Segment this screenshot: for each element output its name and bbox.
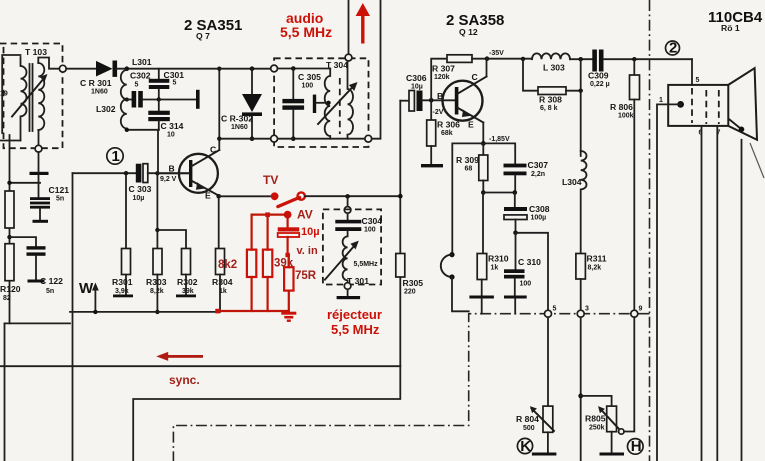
svg-text:100µ: 100µ bbox=[531, 215, 547, 222]
svg-text:C304: C304 bbox=[362, 216, 383, 226]
svg-text:1: 1 bbox=[659, 97, 663, 104]
T304 left winding bbox=[325, 69, 330, 139]
speaker horn arrow bbox=[730, 120, 745, 133]
node rejecteur tap bbox=[345, 194, 350, 199]
transformer T103 right winding bbox=[38, 63, 44, 130]
svg-text:5: 5 bbox=[173, 80, 177, 87]
svg-text:L304: L304 bbox=[562, 177, 582, 187]
speaker terminal 1 bbox=[657, 97, 684, 461]
wire to ground bbox=[347, 289, 349, 296]
svg-text:R 309: R 309 bbox=[456, 155, 479, 165]
ground bar rejecteur bbox=[337, 296, 361, 299]
wire C308 node to 5-line bbox=[516, 233, 549, 311]
ground bar R805 bbox=[600, 453, 625, 456]
svg-text:K: K bbox=[520, 438, 531, 455]
capacitor C306 electrolytic bbox=[400, 73, 455, 111]
W arrow bbox=[79, 280, 99, 314]
red audio arrow bbox=[356, 3, 370, 44]
trimmer plate bbox=[313, 95, 331, 113]
resistor R309 bbox=[456, 143, 488, 192]
svg-text:L 303: L 303 bbox=[543, 63, 565, 73]
node C308 bottom bbox=[513, 231, 518, 236]
svg-text:R301: R301 bbox=[112, 277, 133, 287]
faint diagonal below horn bbox=[750, 143, 764, 178]
capacitor C301 bbox=[149, 69, 184, 100]
label 2 SA358 Q12 bbox=[446, 12, 504, 37]
red node R304 junction bbox=[215, 309, 220, 314]
svg-text:5,5MHz: 5,5MHz bbox=[354, 261, 379, 268]
wire emitter line right of switch bbox=[305, 195, 400, 197]
wire hop to chassis corner bbox=[452, 277, 469, 311]
node C305 top bbox=[291, 66, 296, 71]
resistor R304 bbox=[212, 249, 233, 312]
node R806 top bbox=[632, 57, 636, 61]
node H circled bbox=[628, 438, 644, 455]
svg-text:Rö 1: Rö 1 bbox=[721, 23, 740, 33]
terminal 5 bbox=[545, 306, 557, 318]
svg-text:R120: R120 bbox=[0, 284, 21, 294]
red bottom wire bbox=[218, 310, 289, 312]
svg-text:5: 5 bbox=[135, 82, 139, 89]
terminal circle T304 bottom left bbox=[271, 135, 278, 142]
svg-text:5,5 MHz: 5,5 MHz bbox=[280, 24, 332, 40]
wire C303 to base node bbox=[148, 172, 190, 174]
capacitor C302 bbox=[127, 71, 159, 108]
capacitor C304 bbox=[335, 213, 382, 233]
transistor Q12 bbox=[433, 72, 487, 130]
terminal circle T304 top bbox=[345, 54, 352, 61]
svg-text:C309: C309 bbox=[588, 71, 609, 81]
capacitor bottom plate wire to rail bbox=[10, 182, 41, 184]
ground bar C122 bbox=[28, 280, 45, 283]
connector hop bbox=[441, 252, 455, 280]
node base Q7 bbox=[155, 171, 159, 175]
node K circled bbox=[517, 438, 532, 455]
red AV contact bbox=[284, 211, 292, 219]
red switch right contact bbox=[298, 192, 305, 199]
T304 tuning arrow bbox=[318, 82, 358, 124]
wire feed to speaker bbox=[691, 59, 693, 85]
svg-text:39k: 39k bbox=[182, 288, 194, 295]
svg-text:C R 301: C R 301 bbox=[80, 78, 112, 88]
wire tank bottom bbox=[127, 129, 159, 131]
node 2 circled bbox=[666, 40, 680, 57]
wire rail to L303 bbox=[487, 58, 532, 60]
node collector/rail bbox=[217, 67, 221, 71]
node bus A emitter bbox=[398, 194, 403, 199]
svg-text:10µ: 10µ bbox=[133, 195, 145, 202]
resistor R307 bbox=[431, 55, 487, 101]
svg-text:3: 3 bbox=[585, 306, 589, 313]
svg-text:sync.: sync. bbox=[169, 373, 200, 387]
wire C121 to ground bbox=[39, 209, 41, 220]
red ground symbol bbox=[281, 313, 296, 321]
svg-text:C308: C308 bbox=[529, 204, 550, 214]
svg-text:R 308: R 308 bbox=[539, 95, 562, 105]
red wire AV branch bbox=[252, 215, 288, 250]
wire long vertical from input bbox=[72, 173, 74, 461]
diode CR301 bbox=[80, 61, 117, 96]
terminal 3 bbox=[577, 306, 589, 318]
wire 5-line down bbox=[547, 317, 549, 406]
svg-text:220: 220 bbox=[404, 289, 416, 296]
red node vin bbox=[285, 253, 289, 257]
rejecteur tuning arrow bbox=[325, 241, 359, 280]
svg-text:10: 10 bbox=[167, 132, 175, 139]
capacitor C122 bbox=[27, 246, 64, 295]
svg-text:R310: R310 bbox=[488, 254, 509, 264]
wire to R302 bbox=[157, 230, 186, 249]
chassis plate right of tank bbox=[159, 90, 200, 109]
svg-text:2 SA351: 2 SA351 bbox=[184, 17, 242, 34]
svg-text:B: B bbox=[437, 91, 443, 101]
red switch lever bbox=[278, 197, 300, 206]
inductor L303 bbox=[532, 53, 570, 72]
svg-text:10µ: 10µ bbox=[301, 226, 320, 238]
wire R805 ground bbox=[611, 432, 613, 453]
svg-text:C 303: C 303 bbox=[129, 184, 152, 194]
svg-text:100: 100 bbox=[520, 281, 532, 288]
red label rejecteur bbox=[327, 307, 382, 337]
svg-text:E: E bbox=[205, 191, 211, 201]
wire rail from T103 to diode bbox=[66, 68, 96, 70]
wire input line bbox=[73, 172, 137, 174]
resistor upper unlabeled bbox=[5, 191, 14, 228]
svg-text:100k: 100k bbox=[618, 113, 634, 120]
wire: T103 right winding top jog to terminal bbox=[38, 58, 59, 69]
svg-text:6, 8 k: 6, 8 k bbox=[540, 105, 558, 112]
svg-text:C: C bbox=[472, 72, 478, 82]
svg-text:C 314: C 314 bbox=[161, 121, 184, 131]
svg-text:R303: R303 bbox=[146, 277, 167, 287]
wire feedback down to base bbox=[157, 130, 159, 174]
node R805 tap bbox=[578, 394, 583, 399]
resistor R302 with ground bbox=[176, 249, 198, 298]
wire to R805 bbox=[581, 396, 612, 406]
wire C122 branch bbox=[10, 237, 37, 246]
svg-text:8,2k: 8,2k bbox=[588, 265, 602, 272]
wire T304 inner bottom bbox=[278, 138, 366, 140]
node collector/T304 bottom wire bbox=[217, 137, 221, 141]
svg-text:C301: C301 bbox=[164, 70, 185, 80]
ground bar C121 bbox=[33, 220, 49, 223]
svg-text:9,2 V: 9,2 V bbox=[160, 176, 177, 183]
wire: T103 bottom winding to bottom terminal bbox=[38, 130, 40, 145]
svg-text:5: 5 bbox=[696, 77, 700, 84]
node after diode bbox=[125, 66, 130, 71]
wire R804 ground bbox=[547, 432, 549, 452]
svg-text:5,5 MHz: 5,5 MHz bbox=[331, 322, 380, 337]
capacitor C303 electrolytic bbox=[129, 164, 152, 202]
wire bottom-left horizontal bbox=[5, 322, 71, 324]
resistor R311 bbox=[576, 254, 607, 311]
wire bottom-left vertical to edge bbox=[4, 323, 6, 461]
svg-text:v. in: v. in bbox=[297, 245, 318, 257]
red wire 39k branch bbox=[267, 215, 269, 250]
speaker box bbox=[668, 85, 728, 126]
svg-text:100: 100 bbox=[364, 227, 376, 234]
wire node to C307 node bbox=[483, 192, 515, 194]
svg-text:R 806: R 806 bbox=[610, 102, 633, 112]
svg-text:R311: R311 bbox=[587, 254, 607, 264]
red label audio 5,5 MHz bbox=[280, 10, 332, 40]
node on rail bbox=[7, 181, 11, 185]
svg-text:250k: 250k bbox=[589, 425, 605, 432]
capacitor C308 electrolytic bbox=[504, 193, 550, 233]
svg-text:H: H bbox=[631, 438, 642, 455]
transformer T103 dashed box bbox=[0, 44, 63, 149]
wire audio out top left bbox=[348, 0, 350, 54]
svg-text:68k: 68k bbox=[441, 130, 453, 137]
svg-text:2,2n: 2,2n bbox=[531, 171, 545, 178]
wire L303 right to rail node bbox=[570, 58, 592, 60]
terminal circle T304 left bbox=[271, 65, 278, 72]
resistor R305 bbox=[396, 254, 423, 296]
wire W bus bbox=[70, 311, 217, 313]
svg-text:1k: 1k bbox=[491, 265, 499, 272]
wire cap stem bbox=[38, 152, 40, 197]
wire emitter to switch bbox=[219, 195, 270, 197]
wire emitter return left bbox=[452, 143, 483, 254]
red wire cap to vin bbox=[287, 237, 289, 255]
node C305 bottom bbox=[291, 136, 296, 141]
node -35V bbox=[485, 56, 490, 61]
node emitter Q12 bbox=[481, 141, 486, 146]
wire 9-line to wiper bbox=[624, 317, 634, 431]
svg-text:C302: C302 bbox=[130, 71, 151, 81]
transformer T103 core bbox=[29, 64, 31, 131]
wire C122 to ground bbox=[35, 256, 37, 280]
wire collector up bbox=[218, 69, 220, 150]
svg-text:0,22 µ: 0,22 µ bbox=[590, 81, 610, 88]
wire inside T304 top bbox=[278, 68, 331, 70]
svg-text:82: 82 bbox=[3, 295, 11, 302]
inductor T301 bbox=[343, 231, 379, 283]
node base Q12 bbox=[429, 98, 434, 103]
svg-text:1N60: 1N60 bbox=[91, 89, 108, 96]
label 110CB4 bbox=[708, 9, 763, 33]
svg-text:100: 100 bbox=[302, 83, 314, 90]
svg-text:R305: R305 bbox=[403, 278, 424, 288]
node R309 bottom bbox=[481, 190, 486, 195]
resistor R306 with ground bbox=[421, 100, 460, 167]
svg-text:E: E bbox=[468, 120, 474, 130]
capacitor C305 bbox=[282, 69, 321, 139]
svg-text:Q 12: Q 12 bbox=[459, 27, 478, 37]
svg-text:3,9k: 3,9k bbox=[115, 288, 129, 295]
wire emitter down bbox=[482, 123, 484, 144]
inductor L304 bbox=[562, 151, 587, 254]
capacitor C310 with ground bbox=[504, 233, 541, 314]
wire collector up bbox=[486, 59, 488, 77]
svg-text:8k2: 8k2 bbox=[218, 259, 237, 271]
svg-text:R304: R304 bbox=[212, 277, 233, 287]
svg-text:L302: L302 bbox=[96, 104, 116, 114]
svg-text:1N60: 1N60 bbox=[231, 124, 248, 131]
svg-text:-2V: -2V bbox=[433, 109, 444, 116]
capacitor C309 bbox=[588, 50, 692, 89]
svg-text:10µ: 10µ bbox=[411, 84, 423, 91]
node terminal circle on T103 bottom edge bbox=[35, 145, 42, 152]
svg-text:2: 2 bbox=[669, 40, 677, 57]
node emitter bbox=[216, 194, 221, 199]
node 1 circled bbox=[107, 148, 123, 165]
transformer T103 tuning arrow bbox=[12, 74, 48, 117]
node L304 top bbox=[579, 57, 583, 61]
red switch TV contact bbox=[271, 192, 279, 200]
red capacitor 10u bbox=[278, 215, 320, 238]
transformer T103 left winding bbox=[21, 57, 27, 141]
svg-text:68: 68 bbox=[465, 166, 473, 173]
resistor R303 with stem to bus bbox=[146, 249, 167, 315]
node on rail for C122 bbox=[7, 235, 11, 239]
wire sync line bbox=[0, 365, 400, 367]
svg-text:19: 19 bbox=[0, 91, 8, 98]
node R308 drop bbox=[521, 57, 525, 61]
wire T304 loop bottom bbox=[219, 138, 270, 140]
speaker inner dashed lines bbox=[691, 88, 693, 123]
red resistor 75R bbox=[284, 255, 317, 311]
svg-text:Q 7: Q 7 bbox=[196, 31, 210, 41]
speaker horn bbox=[728, 68, 757, 140]
resistor R308 bbox=[523, 59, 581, 112]
diode CR302 bbox=[221, 66, 262, 141]
svg-text:C 310: C 310 bbox=[518, 257, 541, 267]
svg-text:9: 9 bbox=[639, 306, 643, 313]
resistor R120 bbox=[0, 244, 21, 302]
wire 3-line down bbox=[580, 317, 582, 461]
node terminal circle on T103 right edge bbox=[59, 65, 66, 72]
resistor R806 bbox=[610, 59, 640, 310]
svg-text:R 307: R 307 bbox=[432, 64, 455, 74]
inductor L302 bbox=[96, 70, 127, 130]
svg-text:R 306: R 306 bbox=[437, 120, 460, 130]
svg-text:5n: 5n bbox=[46, 288, 54, 295]
wire L304 line upper bbox=[580, 59, 582, 156]
potentiometer R804 bbox=[516, 406, 554, 432]
svg-text:C: C bbox=[210, 145, 216, 155]
terminal circle T304 right bbox=[365, 135, 372, 142]
terminal 9 bbox=[631, 306, 643, 318]
svg-text:R 804: R 804 bbox=[516, 414, 539, 424]
svg-text:1: 1 bbox=[112, 148, 120, 165]
node C30x junction bbox=[157, 97, 161, 101]
label 2 SA351 Q7 bbox=[184, 17, 242, 41]
node input bbox=[124, 171, 128, 175]
svg-text:C R-302: C R-302 bbox=[221, 114, 253, 124]
terminal circle rejecteur top bbox=[344, 207, 351, 214]
capacitor C314 bbox=[148, 100, 183, 139]
svg-text:R805: R805 bbox=[585, 414, 606, 424]
svg-text:5n: 5n bbox=[56, 196, 64, 203]
svg-text:T 103: T 103 bbox=[25, 47, 47, 57]
svg-text:500: 500 bbox=[523, 425, 535, 432]
capacitor C121 bbox=[30, 185, 69, 209]
node R308 right bbox=[579, 89, 583, 93]
svg-text:R302: R302 bbox=[177, 277, 198, 287]
wire stub left edge lower bbox=[0, 140, 21, 142]
red sync arrow bbox=[156, 352, 203, 387]
wire emitter down to R304 bbox=[218, 196, 220, 248]
wire base bias line down bbox=[156, 173, 158, 248]
svg-text:5: 5 bbox=[553, 306, 557, 313]
svg-text:C306: C306 bbox=[406, 73, 427, 83]
T304 right winding bbox=[348, 61, 354, 139]
capacitor C307 bbox=[483, 143, 548, 192]
resistor R310 with ground bbox=[469, 193, 508, 314]
wire tap down bbox=[347, 196, 349, 206]
ground bar R804 bbox=[532, 453, 557, 456]
svg-text:C121: C121 bbox=[49, 185, 70, 195]
node bias split bbox=[155, 228, 159, 232]
svg-text:L301: L301 bbox=[132, 57, 152, 67]
potentiometer R805 bbox=[585, 406, 624, 434]
red resistor 8k2 bbox=[218, 250, 256, 311]
svg-text:75R: 75R bbox=[295, 270, 317, 282]
node tank bottom bbox=[125, 128, 129, 132]
svg-text:C 305: C 305 bbox=[298, 72, 321, 82]
wire audio out right bbox=[372, 0, 381, 139]
red resistor 39k bbox=[263, 250, 294, 311]
node C307 bottom bbox=[513, 190, 518, 195]
svg-text:réjecteur: réjecteur bbox=[327, 307, 382, 322]
wire bus A vertical bbox=[133, 101, 400, 461]
transistor Q7 bbox=[157, 145, 219, 201]
T304 core dashed bbox=[339, 78, 341, 134]
svg-text:B: B bbox=[169, 164, 175, 174]
wire stub left edge upper bbox=[2, 55, 20, 133]
resistor R301 with stem and ground bbox=[112, 173, 133, 297]
svg-text:TV: TV bbox=[263, 173, 278, 187]
svg-text:-35V: -35V bbox=[489, 50, 504, 57]
terminal circle rejecteur bottom bbox=[344, 283, 351, 290]
svg-text:C307: C307 bbox=[528, 160, 549, 170]
node L302 mid tap bbox=[125, 98, 129, 102]
dash-dot chassis boundary bbox=[649, 0, 651, 461]
svg-text:W: W bbox=[79, 280, 94, 297]
transformer T304 dashed box bbox=[274, 58, 368, 147]
svg-text:-1,85V: -1,85V bbox=[489, 136, 510, 143]
wire rail diode to T304 bbox=[117, 68, 271, 70]
red node bbox=[265, 212, 270, 217]
wire left rail bbox=[9, 135, 11, 323]
wires below speaker bbox=[701, 126, 703, 461]
svg-text:AV: AV bbox=[297, 208, 313, 222]
capacitor under T103 top plate bbox=[30, 172, 49, 175]
svg-text:120k: 120k bbox=[434, 74, 450, 81]
